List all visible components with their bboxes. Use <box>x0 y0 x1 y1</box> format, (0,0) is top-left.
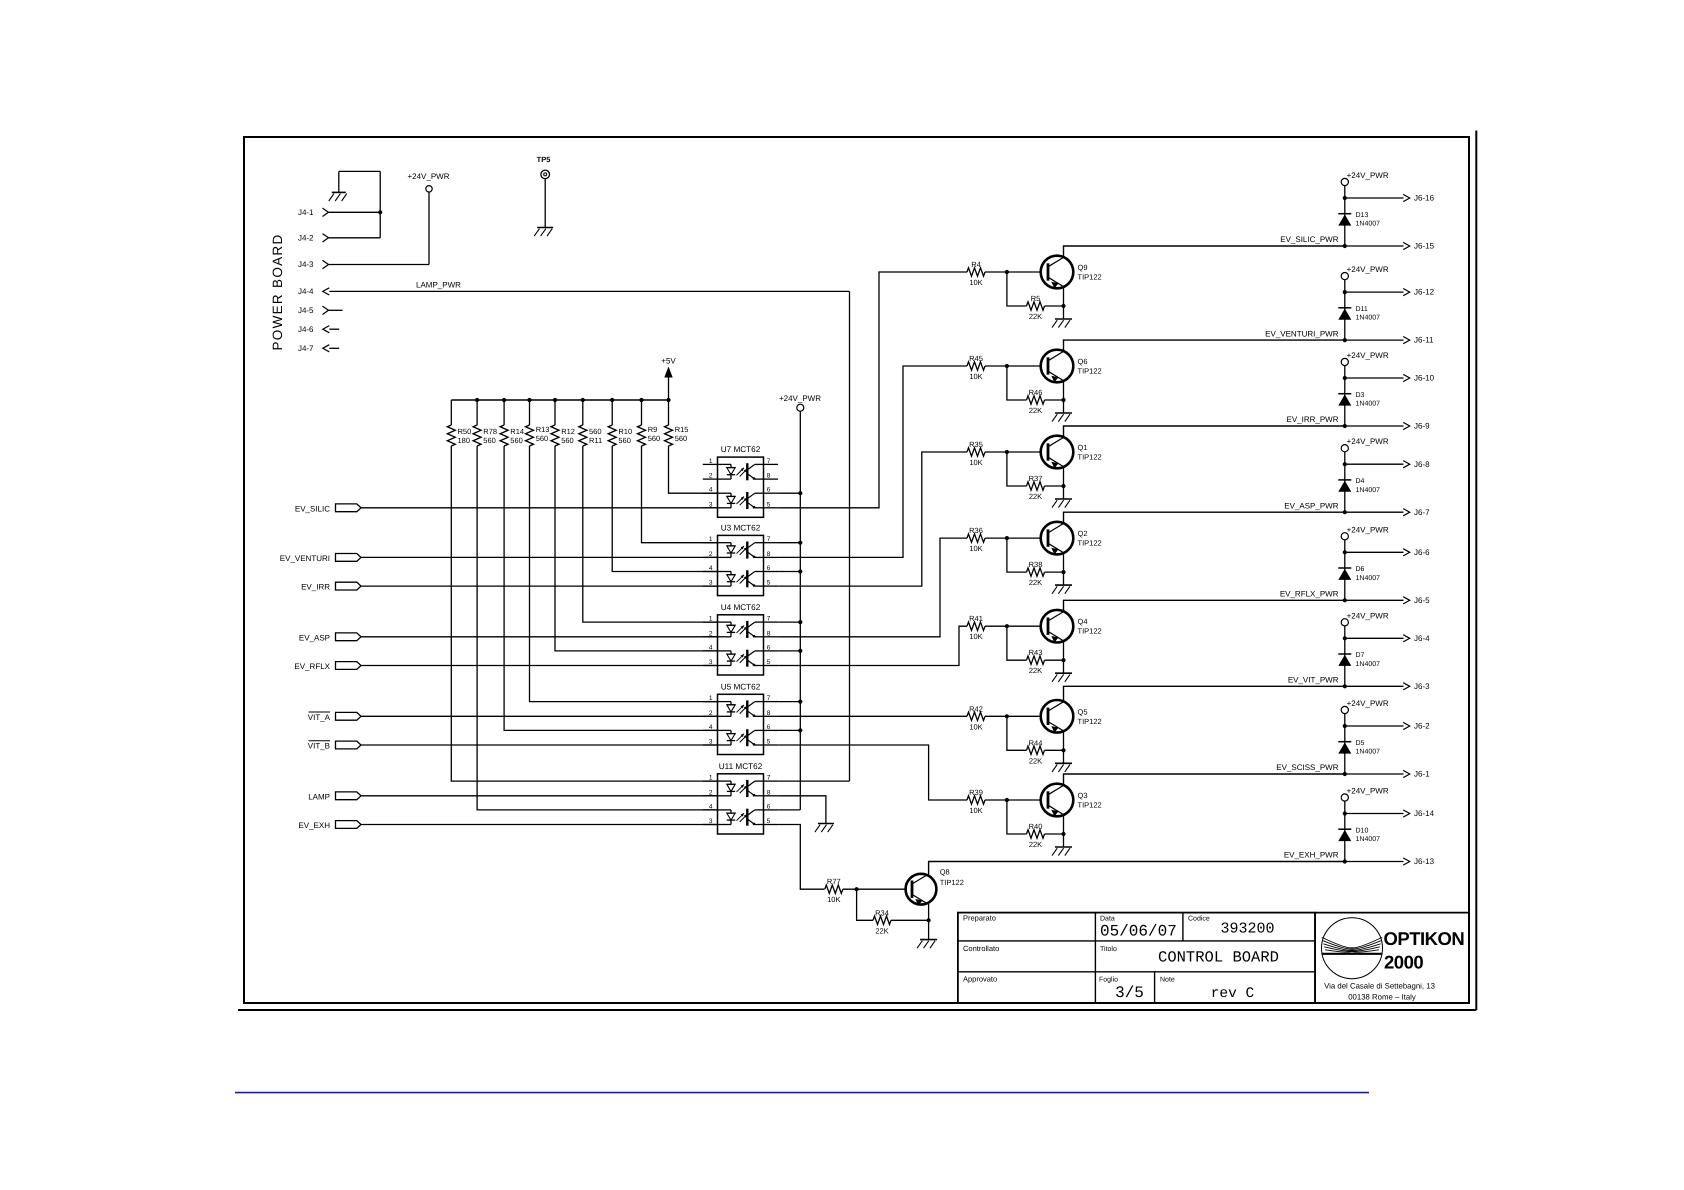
node bus junction <box>610 398 614 402</box>
svg-text:R35: R35 <box>969 440 983 449</box>
svg-text:Q9: Q9 <box>1078 263 1088 272</box>
svg-text:Preparato: Preparato <box>963 913 996 922</box>
wire +24V to diode <box>1344 280 1346 340</box>
svg-text:J6-6: J6-6 <box>1414 548 1430 557</box>
resistor R34 22K <box>873 908 891 935</box>
node Q8 emitter junction <box>927 918 931 922</box>
svg-text:U3 MCT62: U3 MCT62 <box>721 523 761 532</box>
power flag +24V_PWR (opto rail) <box>779 394 821 411</box>
wire opto collector pin to +24V rail <box>778 542 800 544</box>
connector pin J4-5 chevron <box>323 306 329 314</box>
svg-text:Q8: Q8 <box>940 868 950 877</box>
wire collector to EV_IRR_PWR <box>1064 426 1345 437</box>
node base junction <box>1005 798 1009 802</box>
node base junction <box>1005 270 1009 274</box>
ground (emitter) <box>1052 319 1072 328</box>
diode D7 1N4007 <box>1338 652 1380 668</box>
connector pin J4-4 arrow <box>323 288 330 295</box>
svg-text:1N4007: 1N4007 <box>1356 221 1381 228</box>
svg-text:R78: R78 <box>483 427 497 436</box>
svg-text:J6-4: J6-4 <box>1414 634 1430 643</box>
wire collector to EV_RFLX_PWR <box>1064 600 1345 611</box>
diode D5 1N4007 <box>1338 740 1380 756</box>
wire emitter <box>1063 731 1065 763</box>
svg-text:J4-1: J4-1 <box>298 208 314 217</box>
svg-text:1N4007: 1N4007 <box>1356 315 1381 322</box>
svg-text:4: 4 <box>709 487 713 494</box>
svg-text:J6-8: J6-8 <box>1414 460 1430 469</box>
svg-text:560: 560 <box>589 427 602 436</box>
svg-text:R15: R15 <box>675 425 689 434</box>
input connector EV_SILIC <box>295 504 361 514</box>
ground (emitter) <box>1052 585 1072 594</box>
node rail junction <box>798 700 802 704</box>
svg-text:+24V_PWR: +24V_PWR <box>407 172 449 181</box>
svg-text:R46: R46 <box>1029 388 1043 397</box>
svg-text:+24V_PWR: +24V_PWR <box>1347 437 1389 446</box>
wire bank resistor to optocoupler pin <box>669 446 718 493</box>
optocoupler U7 MCT62 <box>703 445 778 517</box>
resistor R43 22K <box>1027 648 1045 675</box>
svg-text:R42: R42 <box>969 704 983 713</box>
svg-text:R44: R44 <box>1029 738 1043 747</box>
svg-text:D7: D7 <box>1356 652 1365 659</box>
node emitter junction <box>1061 484 1065 488</box>
wire bank resistor to optocoupler pin <box>583 446 718 622</box>
wire bank resistor to optocoupler pin <box>504 446 717 730</box>
ground (emitter) <box>1052 763 1072 772</box>
wire EV_VENTURI to optocoupler <box>361 556 718 558</box>
wire VIT_A to optocoupler <box>361 715 718 717</box>
svg-text:1N4007: 1N4007 <box>1356 836 1381 843</box>
node rail junction <box>798 728 802 732</box>
resistor R41 10K <box>967 614 985 641</box>
ground (U11 pin8) <box>815 824 834 833</box>
svg-text:J4-5: J4-5 <box>298 306 314 315</box>
node junction J6-16 <box>1343 196 1347 200</box>
svg-text:R34: R34 <box>875 908 889 917</box>
svg-text:10K: 10K <box>827 895 840 904</box>
svg-text:U5 MCT62: U5 MCT62 <box>721 682 761 691</box>
input connector EV_ASP <box>299 633 361 643</box>
node bus junction <box>475 398 479 402</box>
wire collector to EV_SILIC_PWR <box>1064 246 1345 257</box>
node bus junction <box>527 398 531 402</box>
svg-text:D6: D6 <box>1356 566 1365 573</box>
svg-text:+24V_PWR: +24V_PWR <box>1347 699 1389 708</box>
svg-text:+24V_PWR: +24V_PWR <box>1347 787 1389 796</box>
svg-text:1: 1 <box>709 775 713 782</box>
input connector EV_EXH <box>298 821 361 831</box>
svg-text:Q5: Q5 <box>1078 707 1088 716</box>
wire opto collector pin to +24V rail <box>778 571 800 573</box>
svg-text:R37: R37 <box>1029 474 1043 483</box>
resistor R4 10K <box>967 260 985 287</box>
wire rail into U11 pin6 <box>778 809 800 811</box>
connector pin J6-6 <box>1345 548 1430 557</box>
wire J4-2 to junction <box>329 237 381 239</box>
wire opto collector pin to +24V rail <box>778 701 800 703</box>
node junction J6-6 <box>1343 550 1347 554</box>
svg-text:J6-10: J6-10 <box>1414 374 1435 383</box>
svg-text:22K: 22K <box>1029 578 1042 587</box>
node junction J6-10 <box>1343 376 1347 380</box>
wire base <box>985 799 1041 801</box>
svg-text:Controllato: Controllato <box>963 944 999 953</box>
svg-text:EV_VENTURI_PWR: EV_VENTURI_PWR <box>1265 329 1339 338</box>
svg-text:Foglio: Foglio <box>1099 976 1118 984</box>
svg-text:EV_VENTURI: EV_VENTURI <box>280 554 330 563</box>
node junction J6-12 <box>1343 290 1347 294</box>
wire TP5 to ground <box>544 179 546 228</box>
svg-text:J6-15: J6-15 <box>1414 242 1435 251</box>
wire emitter <box>1063 553 1065 585</box>
svg-text:2: 2 <box>709 473 713 480</box>
wire bank resistor to optocoupler pin <box>555 446 718 651</box>
wire EV_RFLX to optocoupler <box>361 665 718 667</box>
node base junction <box>1005 450 1009 454</box>
node emitter junction <box>1061 832 1065 836</box>
svg-text:J6-13: J6-13 <box>1414 857 1435 866</box>
input connector EV_RFLX <box>294 662 361 672</box>
connector pin J6-2 <box>1345 722 1430 731</box>
input connector EV_VENTURI <box>280 554 361 564</box>
svg-text:R41: R41 <box>969 614 983 623</box>
ground (TP5) <box>534 228 553 237</box>
power flag +5V <box>661 357 676 400</box>
svg-text:R40: R40 <box>1029 822 1043 831</box>
svg-text:EV_SILIC_PWR: EV_SILIC_PWR <box>1280 235 1338 244</box>
wire U11 pin7 to LAMP_PWR riser <box>778 780 849 782</box>
wire R44 row <box>1007 716 1027 750</box>
diode D4 1N4007 <box>1338 478 1380 494</box>
node bus junction <box>666 398 670 402</box>
blue separator line <box>235 1092 1369 1094</box>
diode D6 1N4007 <box>1338 566 1380 582</box>
svg-text:J6-9: J6-9 <box>1414 422 1430 431</box>
resistor R37 22K <box>1027 474 1045 501</box>
svg-text:22K: 22K <box>1029 840 1042 849</box>
svg-text:U4 MCT62: U4 MCT62 <box>721 603 761 612</box>
connector pin J6-9 <box>1345 422 1430 431</box>
transistor Q6 TIP122 <box>1041 350 1074 383</box>
ground (emitter) <box>1052 847 1072 856</box>
resistor R35 10K <box>967 440 985 467</box>
wire EV_IRR to optocoupler <box>361 585 718 587</box>
transistor Q8 TIP122 <box>906 874 937 906</box>
svg-text:560: 560 <box>618 436 631 445</box>
power flag +24V_PWR (Q1 channel) <box>1341 351 1389 366</box>
svg-text:10K: 10K <box>969 806 982 815</box>
svg-text:J6-5: J6-5 <box>1414 596 1430 605</box>
test point TP5 <box>537 155 551 179</box>
svg-text:TIP122: TIP122 <box>1078 273 1102 282</box>
node junction EV_RFLX_PWR <box>1343 598 1347 602</box>
wire junction vertical J4-1/J4-2 <box>379 171 381 237</box>
svg-text:J4-2: J4-2 <box>298 233 314 242</box>
resistor R12 560 (bank) <box>551 400 575 446</box>
svg-text:Titolo: Titolo <box>1100 945 1117 953</box>
node rail junction <box>798 491 802 495</box>
wire bank resistor to optocoupler pin <box>451 446 717 781</box>
svg-text:Codice: Codice <box>1188 914 1210 922</box>
node emitter junction <box>1061 570 1065 574</box>
svg-text:U7 MCT62: U7 MCT62 <box>721 445 761 454</box>
wire optocoupler emitter to base resistor R45 <box>778 366 967 557</box>
wire +24V to diode <box>1344 714 1346 774</box>
svg-text:Q2: Q2 <box>1078 529 1088 538</box>
svg-text:CONTROL BOARD: CONTROL BOARD <box>1158 949 1279 967</box>
svg-text:+24V_PWR: +24V_PWR <box>1347 525 1389 534</box>
ground (emitter) <box>1052 673 1072 682</box>
svg-text:J6-12: J6-12 <box>1414 288 1435 297</box>
svg-text:LAMP: LAMP <box>308 792 330 801</box>
svg-text:1: 1 <box>709 616 713 623</box>
connector pin J4-6 arrow <box>323 326 330 333</box>
connector pin J4-1 chevron <box>323 208 329 216</box>
resistor R38 22K <box>1027 560 1045 587</box>
svg-text:22K: 22K <box>1029 492 1042 501</box>
wire bank resistor to optocoupler pin <box>612 446 717 572</box>
svg-text:Approvato: Approvato <box>963 975 997 984</box>
svg-text:+24V_PWR: +24V_PWR <box>1347 611 1389 620</box>
wire bank resistor to optocoupler pin <box>530 446 718 702</box>
svg-text:+24V_PWR: +24V_PWR <box>1347 171 1389 180</box>
optocoupler U4 MCT62 <box>703 603 778 675</box>
svg-text:TIP122: TIP122 <box>1078 539 1102 548</box>
drawing frame border <box>238 131 1476 1011</box>
connector pin J6-8 <box>1345 460 1430 469</box>
wire EV_SILIC to optocoupler <box>361 507 718 509</box>
node junction J6-14 <box>1343 811 1347 815</box>
node junction EV_ASP_PWR <box>1343 510 1347 514</box>
node base junction <box>1005 624 1009 628</box>
resistor R77 10K <box>825 877 843 904</box>
connector pin J6-11 <box>1345 336 1434 345</box>
ground (J4-1/J4-2 net) <box>329 192 347 201</box>
svg-text:Q4: Q4 <box>1078 617 1088 626</box>
svg-text:00138 Rome – Italy: 00138 Rome – Italy <box>1348 993 1416 1002</box>
node emitter junction <box>1061 748 1065 752</box>
transistor Q5 TIP122 <box>1041 700 1074 733</box>
node emitter junction <box>1061 398 1065 402</box>
optocoupler U3 MCT62 <box>703 523 778 595</box>
resistor R50 180 (bank) <box>447 400 471 446</box>
svg-text:4: 4 <box>709 565 713 572</box>
wire to ground top-left <box>339 170 380 172</box>
wire EV_EXH to optocoupler <box>361 824 718 826</box>
svg-text:J6-3: J6-3 <box>1414 682 1430 691</box>
svg-text:560: 560 <box>536 434 549 443</box>
resistor R40 22K <box>1027 822 1045 849</box>
wire opto collector pin to +24V rail <box>778 621 800 623</box>
wire +24V to diode <box>1344 540 1346 600</box>
wire optocoupler emitter to base resistor R42 <box>778 715 967 717</box>
wire R77 to Q8 base <box>843 888 906 890</box>
svg-text:Via del Casale di Settebagni,: Via del Casale di Settebagni, 13 <box>1324 982 1435 991</box>
wire emitter <box>1063 381 1065 413</box>
node rail junction <box>798 649 802 653</box>
svg-text:10K: 10K <box>969 632 982 641</box>
resistor R44 22K <box>1027 738 1045 765</box>
svg-text:EV_IRR: EV_IRR <box>301 583 330 592</box>
wire base <box>985 271 1041 273</box>
wire base <box>985 365 1041 367</box>
svg-text:1N4007: 1N4007 <box>1356 401 1381 408</box>
resistor R10 560 (bank) <box>608 400 632 446</box>
wire +24V rail vertical <box>799 411 801 810</box>
connector pin J4-3 chevron <box>323 260 329 268</box>
transistor Q2 TIP122 <box>1041 522 1074 555</box>
node Q8 base junction <box>855 887 859 891</box>
svg-text:EV_SCISS_PWR: EV_SCISS_PWR <box>1276 763 1338 772</box>
svg-text:TIP122: TIP122 <box>1078 717 1102 726</box>
svg-text:R14: R14 <box>510 427 524 436</box>
resistor R39 10K <box>967 788 985 815</box>
svg-text:22K: 22K <box>1029 756 1042 765</box>
wire Q8 emitter <box>928 904 930 940</box>
wire U11 pin8 to ground <box>778 796 826 824</box>
power flag +24V_PWR (J4-3) <box>407 172 449 192</box>
svg-text:560: 560 <box>675 434 688 443</box>
wire +24V to diode <box>1344 452 1346 512</box>
svg-text:10K: 10K <box>969 722 982 731</box>
optocoupler U11 MCT62 <box>703 762 778 834</box>
svg-text:560: 560 <box>483 436 496 445</box>
svg-text:2000: 2000 <box>1384 952 1423 973</box>
svg-text:+5V: +5V <box>661 357 676 366</box>
svg-text:EV_IRR_PWR: EV_IRR_PWR <box>1286 415 1338 424</box>
svg-text:+24V_PWR: +24V_PWR <box>779 394 821 403</box>
svg-text:J6-16: J6-16 <box>1414 194 1435 203</box>
node junction EV_SCISS_PWR <box>1343 772 1347 776</box>
svg-text:Q6: Q6 <box>1078 357 1088 366</box>
svg-text:+24V_PWR: +24V_PWR <box>1347 265 1389 274</box>
svg-text:rev C: rev C <box>1211 986 1255 1002</box>
resistor R9 560 (bank) <box>638 400 661 446</box>
svg-text:D3: D3 <box>1356 392 1365 399</box>
connector pin J6-3 <box>1345 682 1430 691</box>
connector pin J6-7 <box>1345 508 1430 517</box>
diode D13 1N4007 <box>1338 212 1380 228</box>
wire base <box>985 625 1041 627</box>
svg-text:EV_ASP: EV_ASP <box>299 633 330 642</box>
wire +5V bus <box>451 399 668 401</box>
svg-text:180: 180 <box>458 436 471 445</box>
svg-text:TIP122: TIP122 <box>1078 627 1102 636</box>
svg-text:1: 1 <box>709 695 713 702</box>
wire collector to EV_SCISS_PWR <box>1064 774 1345 785</box>
power flag +24V_PWR (Q5 channel) <box>1341 611 1389 626</box>
wire optocoupler emitter to base resistor R39 <box>778 745 967 800</box>
svg-text:1N4007: 1N4007 <box>1356 487 1381 494</box>
input connector EV_IRR <box>301 582 361 592</box>
wire +24V to diode <box>1344 626 1346 686</box>
wire bank resistor to optocoupler pin <box>477 446 717 810</box>
resistor R15 560 (bank) <box>665 400 689 446</box>
svg-text:560: 560 <box>648 434 661 443</box>
node junction J6-4 <box>1343 636 1347 640</box>
wire bank resistor to optocoupler pin <box>642 446 718 543</box>
resistor R42 10K <box>967 704 985 731</box>
wire optocoupler emitter to base resistor R4 <box>778 272 967 508</box>
wire emitter <box>1063 467 1065 499</box>
svg-text:R39: R39 <box>969 788 983 797</box>
wire EV_ASP to optocoupler <box>361 636 718 638</box>
svg-text:VIT_A: VIT_A <box>308 713 331 722</box>
svg-text:4: 4 <box>709 803 713 810</box>
diode D10 1N4007 <box>1338 827 1380 843</box>
svg-text:J4-3: J4-3 <box>298 260 314 269</box>
svg-text:3/5: 3/5 <box>1115 984 1144 1002</box>
power flag +24V_PWR (Q6 channel) <box>1341 265 1389 280</box>
resistor R11 560 (bank) <box>579 400 602 446</box>
connector pin J6-10 <box>1345 374 1435 383</box>
wire optocoupler emitter to base resistor R36 <box>778 538 967 637</box>
svg-text:1: 1 <box>709 536 713 543</box>
resistor R78 560 (bank) <box>473 400 497 446</box>
svg-text:R38: R38 <box>1029 560 1043 569</box>
svg-text:393200: 393200 <box>1220 921 1274 938</box>
svg-text:EV_RFLX: EV_RFLX <box>294 662 330 671</box>
wire collector to EV_VIT_PWR <box>1064 686 1345 701</box>
input connector VIT_A <box>308 712 361 722</box>
svg-text:R9: R9 <box>648 425 658 434</box>
wire Q8 collector to EV_EXH_PWR <box>929 862 1345 875</box>
svg-text:R10: R10 <box>618 427 632 436</box>
node rail junction <box>798 569 802 573</box>
node junction J4-1 <box>378 210 382 214</box>
connector pin J6-14 <box>1345 809 1435 818</box>
svg-text:J4-4: J4-4 <box>298 287 314 296</box>
svg-text:J6-14: J6-14 <box>1414 809 1435 818</box>
resistor R36 10K <box>967 526 985 553</box>
svg-text:VIT_B: VIT_B <box>308 742 330 751</box>
node bus junction <box>553 398 557 402</box>
svg-text:1N4007: 1N4007 <box>1356 575 1381 582</box>
wire J4-1 to junction <box>329 211 381 213</box>
resistor R14 560 (bank) <box>500 400 524 446</box>
wire R46 row <box>1007 366 1027 400</box>
wire +24V to diode <box>1344 186 1346 246</box>
svg-text:D13: D13 <box>1356 212 1369 219</box>
node emitter junction <box>1061 658 1065 662</box>
node junction EV_VIT_PWR <box>1343 684 1347 688</box>
svg-text:J6-11: J6-11 <box>1414 336 1434 345</box>
svg-text:EV_EXH: EV_EXH <box>298 821 330 830</box>
node base junction <box>1005 714 1009 718</box>
svg-text:4: 4 <box>709 724 713 731</box>
wire R38 row <box>1007 538 1027 572</box>
svg-text:EV_VIT_PWR: EV_VIT_PWR <box>1288 676 1339 685</box>
optocoupler U5 MCT62 <box>703 682 778 754</box>
svg-text:TIP122: TIP122 <box>1078 367 1102 376</box>
svg-text:U11 MCT62: U11 MCT62 <box>719 762 763 771</box>
wire emitter <box>1063 641 1065 673</box>
svg-text:R5: R5 <box>1031 294 1041 303</box>
power flag +24V_PWR (Q2 channel) <box>1341 437 1389 452</box>
power flag +24V_PWR (Q9 channel) <box>1341 171 1389 186</box>
wire J4-5 stub <box>329 309 343 311</box>
connector pin J6-15 <box>1345 242 1435 251</box>
svg-text:1: 1 <box>709 458 713 465</box>
power flag +24V_PWR (Q4 channel) <box>1341 525 1389 540</box>
diode D11 1N4007 <box>1338 306 1380 322</box>
resistor R45 10K <box>967 354 985 381</box>
OPTIKON logo emblem <box>1322 918 1383 979</box>
svg-text:TIP122: TIP122 <box>1078 453 1102 462</box>
node base junction <box>1005 536 1009 540</box>
